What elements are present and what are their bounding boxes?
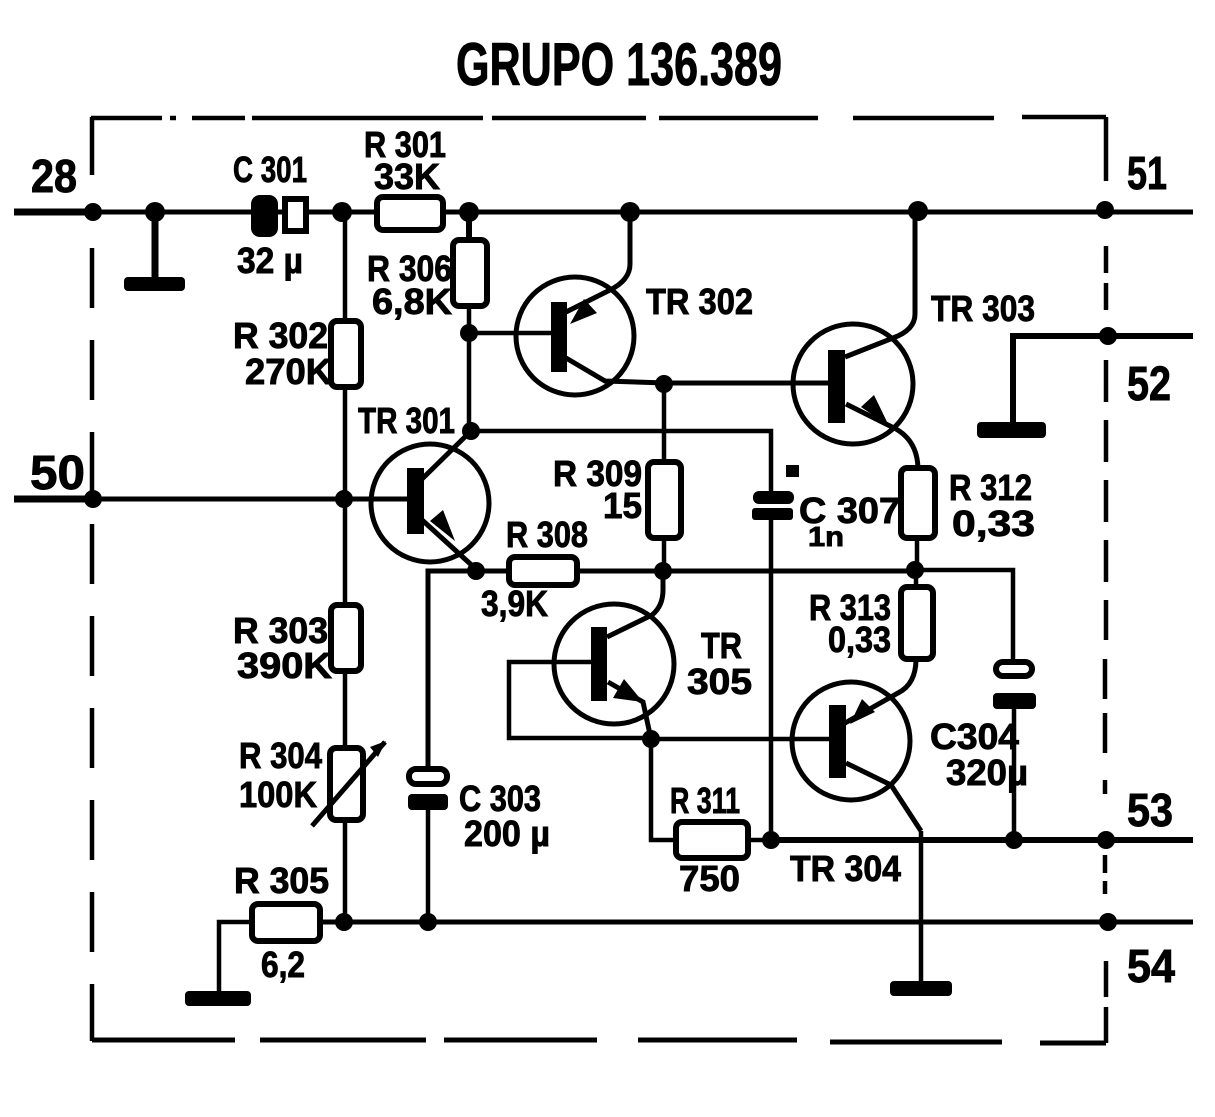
transistor TR301: [358, 400, 489, 570]
svg-text:32 µ: 32 µ: [237, 240, 303, 281]
wire 53 line: [771, 837, 1193, 843]
svg-text:TR 304: TR 304: [790, 848, 901, 889]
terminal 50: [30, 447, 85, 500]
wire R311 right lead: [748, 838, 771, 843]
wire R306 bottom lead / TR302 base node: [467, 306, 472, 431]
wire 54 line: [320, 920, 1193, 925]
capacitor C301: [233, 149, 307, 281]
wire C303 bottom lead: [426, 810, 431, 921]
svg-text:6,8K: 6,8K: [372, 281, 452, 322]
node TR302 collector: [655, 375, 673, 393]
svg-text:6,2: 6,2: [261, 944, 305, 985]
terminal 28: [31, 150, 77, 202]
node C304 bottom: [1005, 831, 1023, 849]
node TR305 emitter: [642, 730, 660, 748]
svg-text:GRUPO 136.389: GRUPO 136.389: [456, 31, 782, 98]
node R306/TR302 base: [460, 324, 478, 342]
node 53 terminal: [1097, 831, 1115, 849]
wire C307 bottom lead: [769, 520, 774, 840]
svg-text:15: 15: [603, 485, 642, 526]
wire R306 top lead: [466, 212, 472, 240]
svg-text:305: 305: [687, 661, 752, 702]
node R311 right: [762, 831, 780, 849]
svg-text:TR 303: TR 303: [931, 288, 1035, 329]
resistor R311: [670, 780, 748, 899]
node TR301 collector: [462, 422, 480, 440]
wire top rail 28-51: [14, 210, 1193, 215]
svg-text:270K: 270K: [245, 351, 332, 392]
wire TR305 base loop: [509, 662, 651, 738]
node 54 terminal: [1099, 913, 1117, 931]
wire R313 top lead: [914, 570, 919, 587]
svg-text:TR 301: TR 301: [358, 400, 455, 441]
resistor R301: [364, 124, 446, 230]
wire C301 ground stub: [152, 212, 159, 280]
terminal 52: [1127, 358, 1171, 411]
resistor R313: [809, 587, 933, 660]
resistor R309: [553, 453, 681, 538]
svg-text:33K: 33K: [374, 156, 440, 197]
terminal 53: [1127, 784, 1173, 836]
wire feedback line R308 node: [428, 571, 915, 771]
wire R309 bottom lead: [662, 538, 667, 572]
ground at C301: [124, 277, 185, 291]
svg-text:TR 302: TR 302: [646, 281, 753, 322]
svg-text:TR: TR: [701, 625, 742, 666]
resistor R302: [233, 315, 361, 392]
svg-text:C 301: C 301: [233, 149, 307, 190]
wire TR302 base: [469, 331, 554, 336]
wire output node to C304: [915, 570, 1013, 661]
resistor R305: [234, 860, 329, 985]
svg-text:0,33: 0,33: [952, 503, 1035, 544]
svg-text:3,9K: 3,9K: [481, 583, 548, 624]
svg-text:52: 52: [1127, 358, 1171, 411]
svg-text:200 µ: 200 µ: [464, 813, 550, 854]
node C303 bottom: [419, 913, 437, 931]
wire C304 bottom lead: [1012, 709, 1017, 839]
dashed border top: [91, 117, 1106, 118]
svg-text:R 312: R 312: [949, 467, 1032, 508]
node output: [906, 561, 924, 579]
ground at R305: [185, 991, 251, 1006]
node 52 terminal: [1099, 327, 1117, 345]
wire TR304 base: [651, 737, 831, 742]
wire R305 left to ground: [219, 922, 252, 993]
node R309 bottom: [654, 562, 672, 580]
svg-text:R 305: R 305: [234, 860, 329, 901]
svg-text:53: 53: [1127, 784, 1173, 836]
ground at 52: [977, 422, 1046, 438]
svg-text:390K: 390K: [237, 645, 332, 686]
ground at TR304: [890, 981, 952, 996]
node dots top rail: [84, 201, 1114, 222]
dashed border right: [1105, 117, 1106, 1043]
terminal 54: [1127, 940, 1175, 992]
capacitor C303: [408, 769, 550, 854]
svg-text:R 304: R 304: [239, 735, 322, 776]
wire TR302 collector to TR303 base: [660, 381, 829, 386]
resistor R303: [233, 605, 361, 686]
resistor R312: [901, 467, 1035, 544]
resistor R308: [481, 514, 588, 624]
wire 52 line: [1013, 336, 1193, 424]
svg-text:54: 54: [1127, 940, 1175, 992]
svg-text:28: 28: [31, 150, 77, 202]
wire rail TR301 collector to C307: [471, 431, 771, 492]
capacitor C304: [930, 662, 1036, 793]
terminal 51: [1127, 147, 1167, 199]
wire TR302 collector down to R309: [662, 383, 667, 462]
transistor TR302: [516, 212, 753, 395]
svg-text:1n: 1n: [808, 521, 844, 552]
node R305/R304: [335, 913, 353, 931]
wire R312 bottom lead: [915, 538, 920, 570]
dashed border left: [90, 117, 95, 1041]
resistor R304 (trimmer): [239, 735, 386, 826]
resistor R306: [367, 240, 487, 322]
svg-text:R 302: R 302: [233, 315, 328, 356]
node TR301 emitter: [467, 562, 485, 580]
title GRUPO 136.389: [456, 31, 782, 98]
svg-text:R 311: R 311: [670, 780, 740, 821]
svg-text:0,33: 0,33: [828, 619, 891, 660]
svg-text:C304: C304: [930, 716, 1019, 757]
transistor TR305: [554, 571, 752, 739]
dashed border bottom: [92, 1040, 1106, 1043]
wire input 50: [14, 497, 409, 502]
wire bias chain verticals: [343, 212, 348, 921]
node dots 50 line: [84, 490, 353, 508]
wire TR304 collector to ground: [919, 831, 924, 983]
capacitor C307: [752, 465, 900, 552]
svg-text:R 308: R 308: [506, 514, 588, 555]
transistor TR303: [793, 212, 1035, 470]
transistor TR304: [790, 659, 921, 889]
svg-text:100K: 100K: [239, 774, 317, 815]
svg-text:750: 750: [679, 858, 740, 899]
svg-text:50: 50: [30, 447, 85, 500]
wire TR305 emitter to R311: [651, 738, 676, 840]
svg-text:51: 51: [1127, 147, 1167, 199]
